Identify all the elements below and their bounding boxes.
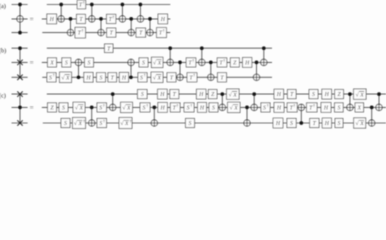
svg-text:†: † (267, 104, 269, 108)
svg-text:X: X (157, 61, 162, 67)
svg-text:(b): (b) (0, 47, 6, 54)
svg-text:†: † (190, 104, 192, 108)
svg-text:X: X (232, 92, 237, 98)
svg-text:†: † (192, 59, 194, 63)
svg-text:†: † (83, 1, 85, 5)
svg-text:H: H (276, 92, 282, 98)
svg-text:S: S (312, 92, 315, 98)
svg-text:†: † (103, 119, 105, 123)
svg-text:S: S (290, 121, 293, 127)
svg-text:H: H (323, 106, 329, 112)
svg-text:†: † (146, 104, 148, 108)
svg-text:H: H (49, 17, 55, 23)
svg-text:H: H (85, 75, 91, 81)
svg-text:=: = (30, 59, 34, 67)
svg-text:†: † (130, 119, 132, 123)
svg-text:S: S (100, 75, 103, 81)
svg-text:†: † (144, 74, 146, 78)
svg-text:S: S (143, 106, 146, 112)
svg-text:S: S (49, 75, 52, 81)
svg-text:=: = (30, 104, 34, 112)
svg-text:S: S (142, 61, 145, 67)
svg-text:S: S (263, 106, 266, 112)
svg-text:S: S (140, 75, 143, 81)
svg-text:=: = (30, 15, 34, 23)
svg-text:H: H (324, 121, 330, 127)
svg-text:X: X (124, 121, 129, 127)
svg-text:S: S (99, 121, 102, 127)
svg-text:S: S (99, 106, 102, 112)
svg-text:S: S (187, 106, 190, 112)
svg-text:H: H (199, 106, 205, 112)
svg-text:S: S (338, 121, 341, 127)
svg-text:S: S (337, 106, 340, 112)
svg-text:X: X (359, 121, 364, 127)
svg-text:H: H (121, 75, 127, 81)
svg-text:†: † (103, 104, 105, 108)
svg-text:†: † (83, 119, 85, 123)
svg-text:S: S (88, 61, 91, 67)
svg-text:†: † (163, 29, 165, 33)
svg-text:X: X (156, 76, 161, 82)
svg-text:X: X (78, 106, 83, 112)
svg-text:†: † (294, 104, 296, 108)
svg-text:X: X (65, 76, 70, 82)
svg-text:X: X (359, 92, 364, 98)
svg-text:H: H (160, 106, 166, 112)
svg-text:H: H (276, 106, 282, 112)
svg-text:S: S (212, 106, 215, 112)
svg-text:†: † (113, 15, 115, 19)
svg-text:X: X (233, 106, 238, 112)
svg-text:H: H (198, 92, 204, 98)
svg-text:S: S (64, 121, 67, 127)
svg-text:X: X (357, 106, 362, 112)
svg-text:X: X (49, 61, 54, 67)
svg-text:(a): (a) (0, 3, 6, 10)
svg-text:†: † (82, 29, 84, 33)
svg-text:†: † (223, 59, 225, 63)
svg-text:H: H (160, 17, 166, 23)
svg-text:(c): (c) (0, 92, 6, 99)
svg-text:S: S (141, 92, 144, 98)
svg-text:X: X (126, 106, 131, 112)
svg-text:†: † (193, 74, 195, 78)
svg-text:†: † (313, 104, 315, 108)
svg-text:†: † (53, 74, 55, 78)
svg-text:S: S (189, 121, 192, 127)
svg-text:H: H (159, 92, 165, 98)
svg-text:H: H (324, 92, 330, 98)
svg-text:†: † (177, 104, 179, 108)
svg-text:X: X (77, 121, 82, 127)
svg-text:S: S (62, 106, 65, 112)
svg-text:H: H (275, 121, 281, 127)
svg-text:S: S (65, 61, 68, 67)
svg-text:H: H (244, 61, 250, 67)
